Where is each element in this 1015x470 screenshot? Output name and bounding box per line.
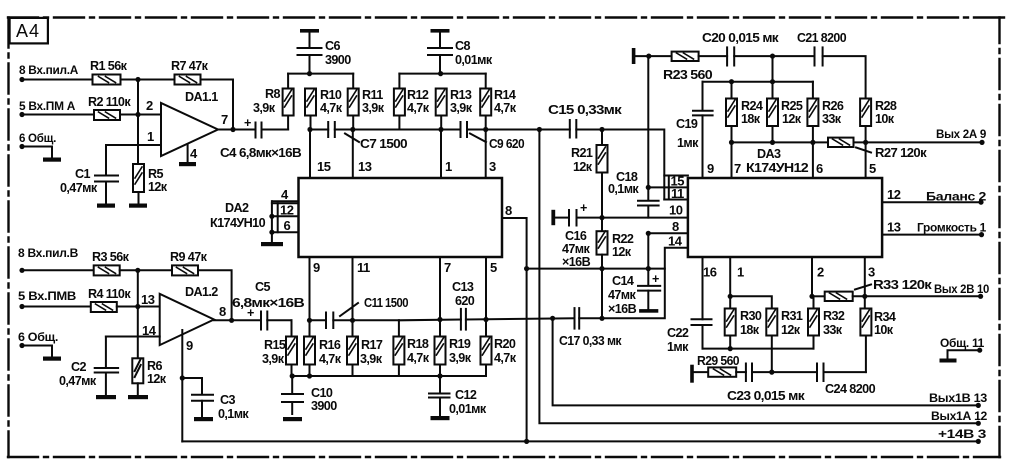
svg-text:C2: C2 (71, 360, 86, 374)
wire pin5 DA3 (866, 142, 876, 178)
svg-text:Баланс 2: Баланс 2 (926, 190, 987, 204)
node input 6 Общ. A (19, 131, 56, 149)
node pin12 bus (269, 214, 274, 219)
svg-text:11: 11 (357, 260, 370, 275)
svg-text:6,8мк×16В: 6,8мк×16В (232, 296, 305, 310)
svg-text:C21 8200: C21 8200 (797, 31, 847, 45)
wire pin2 DA3 (812, 257, 824, 296)
svg-text:14: 14 (668, 234, 683, 249)
pin label 8 DA3 (648, 219, 688, 234)
resistor R34 10к (860, 296, 895, 372)
capacitor C19 1мк (676, 82, 713, 178)
svg-text:R32: R32 (823, 309, 845, 323)
node output/feedback (230, 127, 235, 132)
wire output DA1.2 (214, 319, 261, 321)
svg-text:10: 10 (669, 203, 683, 218)
capacitor C18 0,1мк (608, 170, 659, 218)
svg-text:C10: C10 (311, 386, 333, 400)
resistor R26 33к (807, 82, 843, 143)
capacitor C2 0,47мк (59, 337, 118, 395)
node C12 tap (437, 373, 442, 378)
svg-text:R6: R6 (147, 359, 162, 373)
svg-text:6 Общ.: 6 Общ. (18, 330, 58, 344)
svg-text:3900: 3900 (325, 53, 351, 67)
pin box 6 DA2 (272, 216, 299, 233)
svg-text:DA1.2: DA1.2 (185, 285, 218, 299)
svg-text:C22: C22 (667, 326, 689, 340)
svg-text:+14В 3: +14В 3 (938, 427, 987, 441)
capacitor C3 0,1мк (182, 378, 249, 421)
svg-text:Вых 2А 9: Вых 2А 9 (936, 127, 987, 141)
wire R2 to junction (120, 114, 138, 116)
svg-text:13: 13 (358, 159, 372, 174)
svg-text:11: 11 (671, 186, 684, 201)
wire pin9 supply DA1.2 (181, 330, 183, 442)
wire C23 to C24 (752, 371, 817, 373)
wire C4 to R8 bottom (262, 129, 289, 131)
wire pin9 DA2 (310, 257, 321, 321)
svg-text:+: + (652, 272, 659, 286)
wire R bank top rail (703, 81, 813, 83)
svg-text:R31: R31 (781, 309, 803, 323)
wire pin3 DA3 (865, 257, 875, 296)
op-amp U DA2 К174УН10 box (210, 178, 502, 257)
wire pin16 DA3 (703, 257, 717, 319)
op-amp DA1.1 (146, 90, 228, 161)
node junction R2 column (135, 112, 140, 117)
terminal bar top rail (632, 48, 636, 64)
wire op-amp pin4 (187, 144, 189, 162)
ground C3 (194, 417, 213, 421)
resistor R16 4,7к (304, 320, 342, 376)
capacitor C17 0,33мк (559, 308, 622, 348)
node output Вых1А (931, 409, 988, 426)
node pin5 tap (863, 140, 868, 145)
wire R3 to junction (120, 269, 138, 271)
wire R27 to output 2A (854, 141, 983, 143)
resistor R19 3,9к (435, 320, 472, 377)
capacitor C15 0,33мк (548, 103, 623, 138)
svg-text:33к: 33к (822, 112, 842, 126)
node junction R4 column (135, 304, 140, 309)
resistor R21 12к (571, 130, 608, 218)
svg-text:3,9к: 3,9к (253, 101, 276, 115)
svg-text:C19: C19 (676, 117, 698, 131)
node C10 tap (290, 373, 295, 378)
svg-text:8: 8 (219, 304, 226, 319)
svg-text:R26: R26 (822, 99, 844, 113)
wire output DA1.1 (218, 129, 256, 131)
svg-text:2: 2 (817, 265, 824, 280)
node pin1/R30 (728, 294, 733, 299)
svg-text:Вых 2В 10: Вых 2В 10 (934, 282, 990, 296)
svg-text:C5: C5 (255, 280, 270, 294)
svg-text:C4 6,8мк×16В: C4 6,8мк×16В (220, 146, 302, 160)
svg-text:8: 8 (505, 203, 512, 218)
wire pin13 into op-amp (138, 306, 160, 308)
svg-text:C24 8200: C24 8200 (825, 382, 876, 396)
svg-text:18к: 18к (740, 323, 760, 337)
resistor R1 56к (90, 59, 128, 85)
node Вых1В tee (550, 316, 555, 321)
node pin6 tap (810, 140, 815, 145)
node R25 top (770, 79, 775, 84)
svg-text:Общ. 11: Общ. 11 (940, 336, 985, 350)
capacitor C8 0,01мк (428, 33, 493, 74)
wire pin14 line (106, 336, 160, 338)
node R21 top (599, 127, 604, 132)
node C20/C21 tap (770, 54, 775, 59)
wire DA2 left bus (271, 201, 273, 242)
svg-text:7: 7 (221, 112, 228, 127)
svg-text:3,9к: 3,9к (450, 101, 473, 115)
ground R6 (128, 395, 148, 399)
svg-text:C6: C6 (325, 39, 340, 53)
node R11/pin13 (350, 127, 355, 132)
svg-text:C9 620: C9 620 (489, 137, 525, 151)
pin box 15 DA3 (664, 174, 688, 189)
svg-text:DA2: DA2 (225, 201, 249, 215)
wire C5 to R15 (267, 319, 291, 321)
svg-text:9: 9 (313, 260, 320, 275)
svg-text:12: 12 (280, 203, 294, 218)
svg-text:C11 1500: C11 1500 (364, 296, 409, 310)
node R25 bottom (770, 140, 775, 145)
svg-text:R22: R22 (612, 232, 634, 246)
wire pin8 DA3 drop (647, 233, 649, 268)
svg-text:7: 7 (444, 260, 451, 275)
svg-text:3900: 3900 (311, 399, 337, 413)
svg-text:R13: R13 (450, 88, 472, 102)
wire C18 column (647, 56, 649, 187)
svg-text:0,47мк: 0,47мк (60, 181, 98, 195)
wire C9 to C15 (467, 129, 570, 131)
node output/feedback B (229, 318, 234, 323)
svg-text:12к: 12к (782, 112, 802, 126)
resistor R33 120к (812, 278, 933, 301)
svg-text:3,9к: 3,9к (360, 352, 383, 366)
svg-text:R17: R17 (361, 338, 383, 352)
wire pin4 DA2 stub (272, 187, 298, 202)
svg-text:C13: C13 (452, 280, 474, 294)
svg-text:16: 16 (703, 265, 717, 280)
resistor R13 3,9к (436, 88, 473, 130)
svg-text:7: 7 (734, 161, 741, 176)
resistor R8 3,9к (253, 74, 294, 130)
svg-text:R33 120к: R33 120к (873, 278, 933, 292)
resistor R10 4,7к (305, 88, 343, 130)
svg-text:3: 3 (489, 159, 496, 174)
resistor R24 18к (726, 82, 763, 143)
node output Баланс (926, 190, 987, 205)
svg-text:Вых1В 13: Вых1В 13 (929, 391, 988, 405)
node C3 tap (180, 375, 185, 380)
op-amp DA1.2 (141, 285, 226, 353)
svg-text:R9 47к: R9 47к (170, 250, 208, 264)
node C18 tap (646, 185, 651, 190)
svg-text:R18: R18 (407, 337, 429, 351)
svg-text:1мк: 1мк (667, 340, 689, 354)
capacitor C11 1500 (326, 296, 409, 328)
terminal bar C14 (639, 309, 658, 313)
wire Общ A to ground (22, 147, 52, 158)
capacitor C4 6,8мк×16В (220, 116, 302, 160)
ground C12 (431, 416, 450, 420)
resistor R29 560 (694, 354, 740, 377)
svg-text:R5: R5 (148, 167, 163, 181)
capacitor C14 47мк×16В (608, 269, 660, 316)
capacitor C1 0,47мк (60, 145, 118, 203)
svg-text:0,01мк: 0,01мк (449, 402, 487, 416)
svg-text:3: 3 (868, 265, 875, 280)
wire pin13 DA3 output (882, 220, 981, 235)
node R24 top (729, 79, 734, 84)
node Вых1А tee (537, 127, 542, 132)
node C14 tap (646, 266, 651, 271)
node input 8 Вх.пил.А (19, 63, 79, 82)
svg-text:6: 6 (284, 218, 291, 233)
svg-text:R11: R11 (362, 88, 383, 102)
wire C22/R30/R32 bottom rail (703, 348, 814, 350)
ground common A (43, 158, 61, 162)
resistor R18 4,7к (393, 320, 429, 376)
wire main line B C5..C11 (310, 319, 327, 321)
wire C24 to R34 bottom (824, 371, 866, 373)
node output Громкость (917, 221, 987, 238)
svg-text:R29 560: R29 560 (697, 354, 740, 368)
wire R4 to junction (117, 306, 138, 308)
svg-text:1: 1 (445, 159, 452, 174)
svg-text:620: 620 (455, 294, 475, 308)
wire C17 to pin14 corner (579, 248, 688, 319)
svg-text:+: + (244, 116, 251, 130)
node R30 bottom (728, 346, 733, 351)
node pin5/R20 top (483, 317, 488, 322)
svg-text:R3 56к: R3 56к (92, 250, 130, 264)
svg-text:9: 9 (186, 338, 193, 353)
svg-text:К174УН10: К174УН10 (210, 216, 266, 230)
capacitor C6 3900 (298, 33, 352, 74)
svg-text:R16: R16 (319, 338, 341, 352)
svg-text:5 Вх.ПМ А: 5 Вх.ПМ А (19, 99, 76, 113)
ground Общ 11 (940, 359, 957, 363)
svg-text:0,1мк: 0,1мк (608, 182, 639, 196)
svg-text:8 Вх.пил.А: 8 Вх.пил.А (19, 63, 79, 77)
svg-text:12к: 12к (573, 160, 593, 174)
svg-text:6 Общ.: 6 Общ. (19, 131, 56, 145)
designator box A4 (10, 18, 48, 44)
svg-text:R21: R21 (571, 146, 593, 160)
wire bottom rail B (292, 375, 487, 377)
wire pin15 DA2 (310, 130, 331, 179)
wire R6 to ground (137, 383, 139, 394)
resistor R7 47к (171, 59, 209, 85)
resistor R6 12к (132, 358, 167, 386)
capacitor C10 3900 (282, 376, 337, 414)
node R16 bottom (307, 373, 312, 378)
svg-text:R15: R15 (264, 338, 286, 352)
svg-text:8 Вх.пил.В: 8 Вх.пил.В (18, 246, 79, 260)
wire +14В rail (182, 440, 978, 442)
wire Вых1В rail (553, 318, 979, 405)
wire input B1 to R3 (22, 269, 94, 271)
svg-text:4,7к: 4,7к (407, 101, 430, 115)
svg-text:13: 13 (141, 292, 155, 307)
svg-text:C17 0,33 мк: C17 0,33 мк (559, 334, 622, 348)
node pin2/R32 (809, 294, 814, 299)
ground DA2 left (261, 242, 283, 246)
svg-text:R1 56к: R1 56к (90, 59, 128, 73)
wire R1 to junction (121, 79, 139, 81)
svg-text:R12: R12 (407, 88, 429, 102)
node R22 mid (599, 266, 604, 271)
resistor R15 3,9к (262, 320, 297, 376)
resistor R31 12к (766, 309, 803, 373)
svg-text:4,7к: 4,7к (494, 351, 517, 365)
node top rail tap (646, 54, 651, 59)
wire supply node line (527, 268, 665, 270)
capacitor C7 1500 (328, 122, 407, 151)
svg-text:К174УН12: К174УН12 (746, 161, 809, 175)
svg-text:C23 0,015 мк: C23 0,015 мк (727, 389, 805, 403)
wire C15 to DA3 input corner (576, 130, 664, 200)
wire pin8 DA2 (502, 203, 527, 441)
node output Вых 2А (936, 127, 987, 145)
wire main line B R18..C13 (399, 319, 461, 322)
resistor R5 12к (133, 164, 168, 194)
node junction R3/R9 (135, 268, 140, 273)
wire C21 to R28 corner (823, 56, 866, 98)
wire junction to R9 (138, 269, 172, 271)
svg-text:C3: C3 (220, 393, 235, 407)
svg-text:+: + (580, 201, 587, 215)
svg-text:C15 0,33мк: C15 0,33мк (548, 103, 623, 117)
capacitor C13 620 (452, 280, 475, 330)
svg-text:12к: 12к (148, 180, 168, 194)
svg-text:0,1мк: 0,1мк (218, 407, 249, 421)
svg-text:C12: C12 (455, 388, 477, 402)
svg-text:0,47мк: 0,47мк (59, 374, 97, 388)
node output Общ. 11 (940, 336, 985, 353)
resistor R32 33к (808, 296, 845, 348)
svg-text:47мк: 47мк (562, 242, 591, 256)
svg-text:C8: C8 (455, 39, 470, 53)
svg-text:DA3: DA3 (757, 147, 781, 161)
svg-text:4,7к: 4,7к (407, 351, 430, 365)
terminal bar C6 top (300, 29, 319, 33)
wire pin3 DA2 (486, 130, 496, 179)
node pin11/R17 top (350, 318, 355, 323)
wire input B2 to R4 (22, 306, 91, 308)
svg-text:1: 1 (737, 265, 744, 280)
svg-text:10к: 10к (875, 112, 895, 126)
svg-text:13: 13 (887, 220, 901, 235)
node output +14В (938, 427, 987, 444)
svg-text:C7 1500: C7 1500 (360, 137, 408, 151)
svg-text:R27 120к: R27 120к (875, 146, 927, 160)
capacitor C24 8200 (817, 364, 876, 397)
svg-text:Вых1А 12: Вых1А 12 (931, 409, 988, 423)
svg-text:5: 5 (869, 161, 876, 176)
ground C1 (97, 204, 115, 208)
wire pin7 DA2 (440, 257, 451, 320)
wire summing column (137, 80, 139, 165)
svg-text:C16: C16 (565, 229, 587, 243)
resistor R20 4,7к (481, 320, 517, 377)
node output Вых1В (929, 391, 988, 408)
wire input A2 to R2 (22, 114, 94, 116)
wire pin6 DA3 (813, 142, 823, 178)
svg-text:12к: 12к (612, 245, 632, 259)
svg-text:0,01мк: 0,01мк (455, 53, 493, 67)
svg-text:C1: C1 (75, 167, 90, 181)
wire Общ 11 stub (948, 350, 980, 358)
svg-text:C14: C14 (612, 274, 634, 288)
svg-text:3,9к: 3,9к (362, 101, 385, 115)
svg-text:R20: R20 (494, 337, 516, 351)
node C8/R13 top (438, 71, 443, 76)
svg-text:R30: R30 (740, 309, 762, 323)
svg-text:10к: 10к (874, 323, 894, 337)
ground common B (43, 357, 61, 361)
svg-text:R7 47к: R7 47к (171, 59, 209, 73)
pin box 12 DA2 (272, 203, 299, 218)
capacitor C20 0,015мк (702, 31, 779, 66)
svg-text:12: 12 (887, 187, 901, 202)
node R13/pin1 (438, 127, 443, 132)
node input 8 Вх.пил.В (18, 246, 79, 273)
ground R5 (129, 204, 147, 208)
ground pin4 DA1.1 (179, 162, 196, 166)
resistor R12 4,7к (394, 74, 430, 130)
svg-text:R2 110к: R2 110к (88, 95, 131, 109)
svg-text:9: 9 (707, 161, 714, 176)
node input 5 Вх.ПМВ (18, 289, 77, 309)
svg-text:47мк: 47мк (608, 288, 637, 302)
resistor R2 110к (88, 95, 131, 120)
svg-text:×16В: ×16В (562, 255, 591, 269)
node R21 bottom (599, 215, 604, 220)
node C6/R10 top (307, 71, 312, 76)
node pin7 tap (729, 140, 734, 145)
wire junction to R7 (138, 79, 175, 81)
svg-text:R23 560: R23 560 (663, 68, 713, 82)
svg-text:15: 15 (317, 159, 331, 174)
resistor R9 47к (170, 250, 208, 275)
resistor R14 4,7к (480, 74, 517, 130)
wire main line A R12..C9 (399, 129, 460, 131)
node +14В column (524, 439, 529, 444)
wire R7 to feedback corner (201, 80, 234, 130)
resistor R11 3,9к (348, 74, 385, 130)
ground C2 (96, 395, 116, 399)
wire C20 to C21 (734, 55, 814, 57)
terminal bar R29 (690, 365, 694, 383)
node pin7/R19 top (437, 317, 442, 322)
wire tap down to R bank rail (772, 56, 774, 82)
node pin6 bus (269, 230, 274, 235)
svg-text:2: 2 (146, 98, 153, 113)
svg-text:4,7к: 4,7к (319, 352, 342, 366)
svg-text:4,7к: 4,7к (494, 101, 517, 115)
wire pin13 DA2 (353, 130, 372, 179)
svg-text:Громкость 1: Громкость 1 (917, 221, 987, 235)
wire R9 to feedback corner (198, 270, 232, 320)
resistor R27 120к (828, 138, 927, 160)
terminal bar C8 top (431, 29, 450, 33)
node pin9/R16 top (307, 318, 312, 323)
wire top rail A right (399, 73, 485, 75)
